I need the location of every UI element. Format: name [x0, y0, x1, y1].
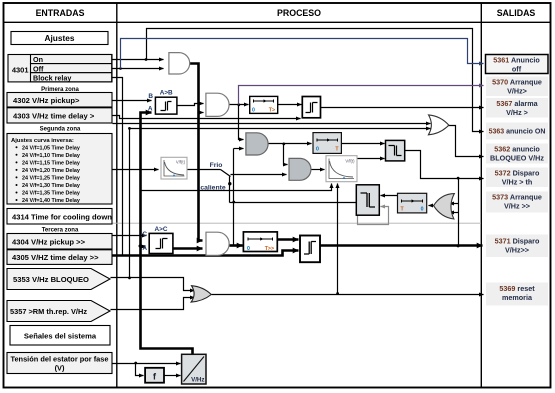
wire AND2 output to timer1	[230, 104, 249, 106]
wire reset OR feed vertical	[458, 179, 460, 246]
output label 5370 Arranque	[486, 77, 548, 97]
wire pulse A output to 5372	[405, 151, 484, 179]
svg-text:0: 0	[316, 147, 319, 153]
wire 4303 time delay bus	[113, 116, 301, 119]
output box 5361 Anuncio off	[486, 55, 549, 74]
wire Off navy to 5361	[121, 39, 484, 69]
timer 0-T gray box	[313, 133, 341, 154]
node Off junction	[119, 67, 122, 70]
svg-text:Tensión del estator por fase: Tensión del estator por fase	[10, 355, 108, 364]
output label 5371 Disparo	[486, 235, 548, 258]
svg-text:Ajustes: Ajustes	[45, 33, 75, 43]
input box 4305	[7, 250, 112, 265]
svg-text:off: off	[512, 65, 522, 74]
V/f(t) integrator box	[326, 156, 357, 182]
op AND2 gate zone1	[206, 93, 229, 116]
node caliente junction	[228, 182, 231, 185]
wire switch stub down	[229, 177, 231, 203]
wire 5353 into OR small	[111, 278, 195, 291]
node 5353 riser top	[128, 127, 131, 130]
svg-text:5372 Disparo: 5372 Disparo	[495, 169, 540, 178]
wire bus to OR input 1	[113, 123, 431, 125]
wire V/f integrator output to pulse A	[358, 158, 385, 160]
svg-text:V/Hz >: V/Hz >	[506, 108, 528, 117]
svg-text:V/f(t): V/f(t)	[176, 160, 186, 165]
wire reset OR input 1	[450, 203, 459, 205]
wire timer3 output to pulse3	[278, 238, 299, 241]
wire 4304 to comparator C	[113, 235, 147, 237]
svg-text:Off: Off	[33, 64, 44, 73]
svg-text:Tercera zona: Tercera zona	[42, 228, 79, 234]
svg-text:Ajustes curva inversa:: Ajustes curva inversa:	[11, 138, 74, 144]
wire OR output to 5362	[449, 126, 484, 157]
svg-text:4304 V/Hz pickup >>: 4304 V/Hz pickup >>	[12, 237, 86, 246]
comparator A>C box	[142, 226, 173, 254]
wire AND-b output into V/f integrator	[312, 169, 325, 171]
wire timer 0-T to pulse A	[342, 143, 385, 145]
V/f(t) characteristic box small	[161, 157, 187, 179]
wire AND-a input 1	[239, 105, 244, 140]
op OR gate small gray bottom	[191, 286, 211, 302]
wire reset OR input 2	[450, 212, 459, 214]
svg-text:5367 alarma: 5367 alarma	[496, 99, 538, 108]
wire Tension into f box	[136, 364, 144, 376]
gray row line	[7, 222, 481, 224]
wire frio common to AND-b	[231, 174, 287, 176]
svg-text:caliente: caliente	[200, 184, 226, 191]
column divider PROCESO/SALIDAS	[480, 3, 482, 388]
svg-text:0: 0	[421, 207, 424, 213]
wire 4305 thick to pulse3	[113, 251, 299, 256]
svg-text:24 V/f=1,20 Time Delay: 24 V/f=1,20 Time Delay	[22, 168, 80, 174]
svg-text:4314 Time for cooling down: 4314 Time for cooling down	[12, 212, 112, 221]
op AND1 gate	[169, 53, 190, 74]
svg-text:5361 Anuncio: 5361 Anuncio	[493, 56, 540, 65]
svg-text:5353 V/Hz BLOQUEO: 5353 V/Hz BLOQUEO	[13, 275, 89, 284]
timer1 box 0 T>	[250, 96, 278, 113]
svg-text:5363 anuncio ON: 5363 anuncio ON	[489, 129, 546, 136]
svg-text:0: 0	[247, 246, 250, 252]
wire pulse3 output to 5371	[321, 244, 483, 247]
svg-text:Segunda zona: Segunda zona	[40, 127, 81, 133]
svg-text:24 V/f=1,25 Time Delay: 24 V/f=1,25 Time Delay	[22, 175, 80, 181]
svg-text:BLOQUEO V/Hz: BLOQUEO V/Hz	[490, 154, 544, 163]
wire branch into AND-b input 1	[284, 144, 288, 165]
svg-text:5371 Disparo: 5371 Disparo	[495, 237, 540, 246]
wire Block relay drop	[112, 78, 123, 256]
node AND2 output junction	[237, 103, 240, 106]
wire Tension into V/Hz box	[113, 363, 181, 365]
node enable branch	[197, 111, 200, 114]
wire switch blade Frio	[221, 170, 231, 177]
node AND-a output junction	[282, 143, 285, 146]
svg-text:V/Hz > th: V/Hz > th	[502, 178, 533, 187]
svg-text:5373 Arranque: 5373 Arranque	[492, 193, 542, 202]
svg-text:SALIDAS: SALIDAS	[497, 8, 536, 18]
header separator line	[4, 21, 551, 23]
pulse3 box	[300, 236, 320, 263]
svg-text:ENTRADAS: ENTRADAS	[36, 8, 85, 18]
pulse1 box	[302, 97, 320, 118]
svg-text:24 V/f=1,35 Time Delay: 24 V/f=1,35 Time Delay	[22, 191, 80, 197]
svg-text:24 V/f=1,05 Time Delay: 24 V/f=1,05 Time Delay	[22, 145, 80, 151]
wire V/Hz thick measurement riser	[141, 113, 193, 355]
svg-text:4303 V/Hz time delay >: 4303 V/Hz time delay >	[13, 111, 95, 120]
node 5372 junction	[457, 177, 460, 180]
op AND-a gate gray	[246, 133, 268, 155]
node Tension junction	[134, 362, 137, 365]
svg-text:(V): (V)	[55, 364, 65, 373]
node thick trip junction	[457, 244, 460, 247]
wire timer1 to pulse1	[278, 104, 302, 106]
input box 4302	[7, 93, 112, 108]
input box Ajustes	[11, 32, 108, 45]
wire curve settings into V/f(t)	[113, 169, 159, 171]
svg-text:V/Hz>: V/Hz>	[507, 87, 527, 96]
output label 5373 Arranque	[486, 192, 548, 213]
svg-text:A: A	[142, 245, 147, 252]
wire switch vertical to zone3	[233, 149, 235, 246]
svg-text:T>: T>	[269, 108, 275, 114]
svg-text:0: 0	[252, 108, 255, 114]
node caliente lower junction	[232, 201, 235, 204]
wire pulse1 to 5367	[321, 107, 484, 109]
input box Tensión del estator	[7, 353, 112, 374]
wire On to top bus to 5363	[147, 29, 484, 132]
output label 5369 reset memoria	[486, 283, 548, 306]
svg-text:Señales del sistema: Señales del sistema	[24, 332, 97, 341]
node V/Hz branch	[139, 245, 142, 248]
wire V/f(t) output to switch	[188, 169, 221, 171]
output label 5362 anuncio BLOQUEO	[486, 144, 548, 164]
svg-text:V/Hz: V/Hz	[191, 377, 204, 384]
svg-text:PROCESO: PROCESO	[277, 8, 321, 18]
svg-text:memoria: memoria	[502, 293, 533, 302]
pulse A gray box	[386, 140, 405, 161]
column divider ENTRADAS/PROCESO	[116, 3, 118, 388]
svg-text:4301: 4301	[12, 66, 29, 75]
wire caliente into V/f integrator bottom	[141, 184, 332, 191]
svg-text:4305 V/HZ time delay >>: 4305 V/HZ time delay >>	[12, 253, 99, 262]
svg-text:B: B	[148, 93, 153, 100]
input box Ajustes curva inversa	[7, 134, 112, 205]
node 5353 riser bottom	[128, 277, 131, 280]
wire timer T-0 output into pulse B	[381, 195, 398, 197]
op AND-b gate gray	[289, 158, 311, 180]
wire AND1 output enable thick	[190, 64, 203, 241]
input box 4303	[7, 108, 112, 123]
node reset riser	[336, 292, 339, 295]
svg-text:24 V/f=1,30 Time Delay: 24 V/f=1,30 Time Delay	[22, 183, 80, 189]
comparator A>B box	[148, 90, 177, 115]
svg-text:24 V/f=1,40 Time Delay: 24 V/f=1,40 Time Delay	[22, 198, 80, 204]
V/Hz divider box	[182, 354, 206, 384]
wire gray feedback around pulse B	[358, 207, 389, 225]
pulse B gray box	[356, 185, 379, 215]
svg-text:T>>: T>>	[265, 246, 274, 252]
svg-text:A: A	[148, 106, 153, 113]
wire On into AND1	[112, 59, 164, 61]
wire 5357 into OR small	[111, 298, 195, 310]
input box Señales del sistema	[10, 326, 110, 346]
output label 5372 Disparo th	[486, 168, 548, 188]
input block 4301 On/Off/Block relay	[8, 55, 112, 83]
svg-text:5369 reset: 5369 reset	[499, 284, 535, 293]
svg-text:On: On	[33, 55, 43, 64]
svg-text:C: C	[142, 231, 147, 238]
wire OR small output to 5369	[212, 294, 484, 296]
input box 4304	[7, 234, 112, 250]
op OR gate mirrored reset	[434, 194, 455, 219]
wire 4302 to comparator B	[113, 100, 152, 102]
wire AND-a input 2	[234, 148, 244, 150]
svg-text:V/f(t): V/f(t)	[345, 159, 355, 164]
svg-text:24 V/f=1,15 Time Delay: 24 V/f=1,15 Time Delay	[22, 160, 80, 166]
svg-text:24 V/f=1,10 Time Delay: 24 V/f=1,10 Time Delay	[22, 153, 80, 159]
svg-text:Frio: Frio	[210, 162, 223, 169]
svg-text:5362 anuncio: 5362 anuncio	[494, 145, 540, 154]
wire enable branch into AND2	[199, 112, 204, 114]
wire caliente lower to pulse B	[230, 202, 357, 204]
wire purple to 5370	[239, 86, 484, 105]
svg-text:A>C: A>C	[155, 226, 168, 233]
svg-text:5357 >RM th.rep. V/Hz: 5357 >RM th.rep. V/Hz	[10, 307, 87, 316]
output label 5367 alarma	[486, 98, 548, 118]
timer3 box 0 T>>	[243, 232, 277, 252]
svg-text:V/Hz >>: V/Hz >>	[504, 202, 530, 211]
svg-text:4302 V/Hz pickup>: 4302 V/Hz pickup>	[13, 96, 80, 105]
f measurement box	[145, 368, 164, 383]
op OR gate white top	[428, 115, 448, 135]
input pentagon 5357 RM th.rep.	[7, 301, 110, 322]
input box 4314	[7, 209, 112, 225]
wire 5353 riser to OR input 2	[130, 129, 431, 278]
svg-text:Block relay: Block relay	[33, 73, 71, 82]
svg-text:V/Hz>>: V/Hz>>	[505, 246, 529, 255]
wire AND-a output to timer 0-T	[269, 143, 312, 145]
wire V/Hz branch to A of A>C	[141, 245, 146, 248]
op AND3 gate zone3	[206, 232, 229, 255]
wire A>B output to AND2	[177, 104, 204, 106]
node On junction	[145, 58, 148, 61]
svg-text:5370 Arranque: 5370 Arranque	[492, 78, 542, 87]
wire A>C output to AND3	[173, 247, 203, 250]
wire f box output into V/Hz box	[165, 375, 181, 377]
timer T-0 gray box	[398, 193, 427, 213]
wire Off into AND1	[112, 68, 164, 70]
wire reset OR output into timer T-0	[429, 205, 434, 207]
wire AND3 output to timer3	[230, 244, 243, 247]
output label 5363 anuncio ON	[486, 123, 548, 140]
wire reset riser into V/f integrator bottom	[337, 184, 339, 294]
svg-text:A>B: A>B	[160, 90, 173, 97]
input pentagon 5353 V/Hz BLOQUEO	[7, 269, 110, 290]
